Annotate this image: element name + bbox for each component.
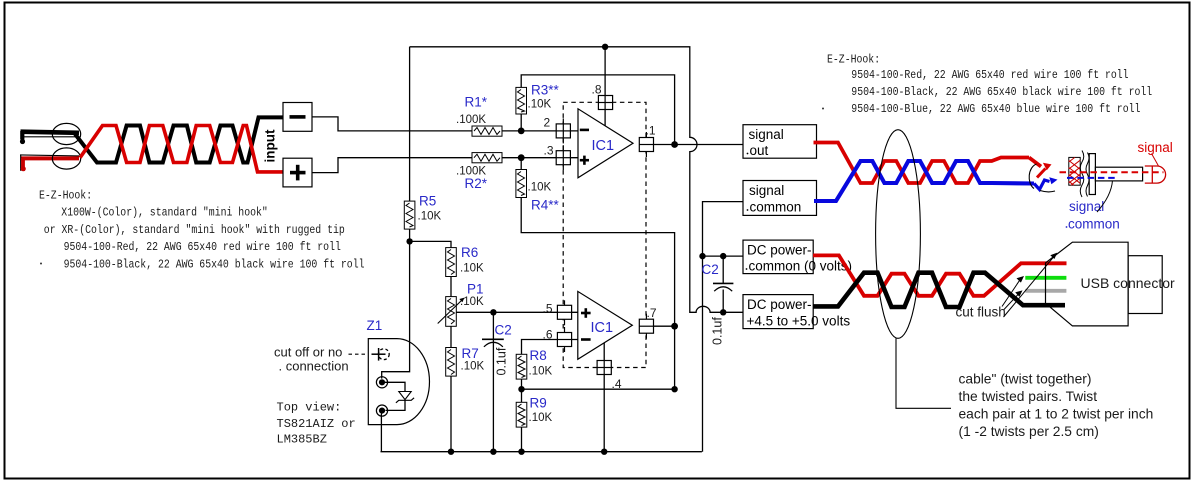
plug barrel — [1095, 167, 1142, 181]
svg-text:cut off or no: cut off or no — [274, 345, 342, 360]
wire ground bus bottom — [381, 451, 702, 453]
node bus junction R9 — [518, 449, 524, 455]
input twisted pair black wire — [75, 117, 284, 162]
wire left vertical (Vref column to Z1) — [382, 47, 410, 379]
twisted pair signal red wire — [814, 143, 1030, 184]
svg-text:R6: R6 — [461, 245, 478, 260]
svg-text:out: out — [750, 143, 769, 158]
resistor R1 100K — [472, 126, 502, 136]
resistor R3 10K — [516, 87, 527, 114]
svg-text:.5: .5 — [543, 302, 553, 316]
dashed leader cut off pin — [349, 353, 367, 355]
wire pin4 to bus — [603, 343, 605, 452]
twisted pair signal blue wire — [814, 161, 1034, 201]
resistor R9 10K — [516, 402, 527, 427]
svg-text:.10K: .10K — [461, 361, 485, 373]
USB green wire stub — [1025, 276, 1066, 280]
svg-text:9504-100-Black, 22 AWG 65x40 b: 9504-100-Black, 22 AWG 65x40 black wire … — [64, 258, 365, 272]
svg-text:9504-100-Red, 22 AWG 65x40 red: 9504-100-Red, 22 AWG 65x40 red wire 100 … — [851, 68, 1128, 82]
wire DC common branch — [703, 255, 744, 257]
signal out box — [743, 125, 817, 159]
svg-text:0.1uf: 0.1uf — [711, 317, 725, 345]
svg-text:LM385BZ: LM385BZ — [277, 433, 327, 447]
leader cut flush to USB corner — [1004, 253, 1058, 317]
node wiper C2a tap — [490, 309, 496, 315]
svg-text:R9: R9 — [530, 396, 547, 411]
plug strain squiggles — [1080, 151, 1084, 198]
svg-text:DC power-: DC power- — [747, 243, 812, 258]
resistor R8 10K — [516, 354, 527, 379]
svg-text:common: common — [1068, 217, 1120, 232]
svg-text:0.1uf: 0.1uf — [495, 347, 509, 375]
label signal common blue — [1066, 199, 1120, 232]
svg-text:.10K: .10K — [529, 366, 553, 378]
svg-text:signal: signal — [749, 127, 784, 142]
wire Z1 bottom pin to bus — [380, 414, 382, 452]
pad pin8 — [598, 96, 612, 110]
dashed box around IC1 — [563, 102, 646, 367]
plug tip red — [1145, 166, 1166, 183]
signal common box — [743, 181, 817, 216]
wire R4 to lower output feedback — [521, 158, 674, 390]
svg-text:+4.5 to +5.0 volts: +4.5 to +5.0 volts — [747, 314, 851, 329]
resistor R2 100K — [472, 153, 502, 163]
svg-text:signal: signal — [1138, 140, 1173, 155]
hook boot circle top — [52, 123, 80, 144]
svg-text:R8: R8 — [530, 348, 547, 363]
svg-text:IC1: IC1 — [592, 138, 615, 154]
hook clip top (black mini-hook) — [20, 131, 79, 144]
potentiometer P1 10K — [438, 297, 465, 327]
svg-text:E-Z-Hook:: E-Z-Hook: — [827, 53, 880, 67]
arrow cut flush to gray — [1004, 290, 1023, 309]
USB connector body — [1046, 242, 1129, 326]
node R4 top junction — [518, 154, 525, 161]
svg-text:C2: C2 — [702, 262, 719, 277]
wire pin6 to R8 — [522, 340, 579, 390]
note E-Z-Hook right — [822, 53, 1152, 117]
svg-text:DC power-: DC power- — [747, 297, 812, 312]
DC power common box — [743, 240, 852, 274]
note cut off or no connection — [274, 345, 349, 374]
svg-text:C2: C2 — [495, 323, 512, 338]
cable grouping ellipse — [876, 130, 921, 339]
node rail junction — [602, 44, 608, 50]
wire minus box to R1 (inverting input wire) — [312, 117, 578, 131]
svg-text:cable" (twist together): cable" (twist together) — [959, 372, 1092, 387]
resistor R4 10K — [516, 170, 527, 198]
svg-text:R7: R7 — [462, 346, 479, 361]
svg-text:.10K: .10K — [528, 99, 552, 111]
node bus junction pin4 — [601, 449, 607, 455]
node bus junction R7 — [448, 449, 454, 455]
svg-text:.7: .7 — [647, 306, 657, 320]
node C2b top junction — [720, 253, 726, 259]
Z1 cut-off pin — [372, 348, 390, 361]
svg-text:.10K: .10K — [418, 211, 442, 223]
svg-text:or XR-(Color), standard "mini: or XR-(Color), standard "mini hook" with… — [44, 223, 345, 237]
wire pin7 output — [654, 325, 675, 327]
node C2b bottom junction — [720, 309, 726, 315]
svg-text:R5: R5 — [419, 194, 436, 209]
pad pin2 — [556, 118, 570, 143]
svg-text:TS821AIZ or: TS821AIZ or — [277, 417, 356, 431]
svg-text:.6: .6 — [543, 328, 553, 342]
svg-text:P1: P1 — [467, 282, 484, 297]
svg-text:.10K: .10K — [460, 296, 484, 308]
svg-text:.1: .1 — [646, 124, 656, 138]
resistor R7 10K — [446, 348, 457, 377]
node pin7 junction — [671, 323, 678, 330]
node R3 bottom junction — [518, 127, 525, 134]
svg-text:.8: .8 — [592, 83, 602, 97]
wire top +5V rail with hops — [410, 47, 743, 313]
arrow cut flush to green — [1002, 276, 1024, 307]
twisted pair DC black wire — [813, 273, 1065, 307]
resistor R6 10K — [446, 248, 457, 277]
leader from ellipse to cable note — [896, 338, 951, 408]
capacitor C2 right 0.1uf — [713, 283, 733, 291]
svg-text:.100K: .100K — [456, 114, 486, 126]
svg-text:signal: signal — [1069, 199, 1104, 214]
pad pin7 — [639, 314, 653, 339]
svg-text:.10K: .10K — [528, 182, 552, 194]
node feedback corner — [671, 386, 677, 392]
input terminal box plus — [283, 158, 312, 187]
svg-text:X100W-(Color), standard "mini: X100W-(Color), standard "mini hook" — [61, 206, 267, 220]
note cable twist instructions — [959, 372, 1154, 440]
wire signal out from pin1 — [654, 144, 743, 146]
input twisted pair red wire — [80, 126, 284, 172]
svg-text:R2*: R2* — [465, 176, 488, 191]
svg-text:common: common — [750, 200, 802, 215]
node bus junction C2a — [490, 449, 496, 455]
zener diode symbol inside Z1 — [385, 382, 414, 410]
wire C2a lead to bus — [492, 312, 494, 451]
pad pin6 — [557, 327, 571, 352]
svg-text:input: input — [263, 129, 278, 162]
wire R8 R9 node to bus — [521, 389, 523, 452]
capacitor C2 left 0.1uf — [482, 339, 504, 347]
node signal common DC common junction — [699, 253, 705, 259]
svg-text:E-Z-Hook:: E-Z-Hook: — [39, 188, 92, 202]
svg-text:.4: .4 — [612, 377, 622, 391]
op-amp U1A triangle — [578, 109, 633, 178]
hook boot circle bottom — [52, 148, 80, 169]
svg-text:Z1: Z1 — [367, 318, 383, 333]
svg-text:common (0 volts): common (0 volts) — [749, 259, 853, 274]
svg-text:9504-100-Red, 22 AWG 65x40 red: 9504-100-Red, 22 AWG 65x40 red wire 100 … — [64, 240, 341, 254]
wire R3 feedback loop to output node — [521, 75, 674, 145]
svg-text:each pair at 1 to 2 twist per: each pair at 1 to 2 twist per inch — [959, 407, 1154, 422]
blue dashed common conductor — [1067, 177, 1117, 179]
svg-text:the twisted pairs. Twist: the twisted pairs. Twist — [959, 389, 1098, 404]
wire C2b top lead — [722, 256, 724, 283]
plug flange — [1089, 154, 1095, 195]
svg-text:R4**: R4** — [531, 198, 560, 213]
node R8 R9 junction — [518, 386, 524, 392]
Z1 middle pin — [376, 377, 387, 388]
svg-text:. connection: . connection — [279, 359, 349, 374]
hook clip bottom (red mini-hook) — [20, 155, 79, 171]
pad pin1 — [639, 132, 653, 157]
wire P1 wiper to pin5 — [456, 311, 578, 313]
wire R6-P1-R7 chain column — [410, 241, 451, 451]
wire pin8 drop from rail — [604, 47, 606, 126]
op-amp U1B triangle — [578, 291, 633, 359]
svg-text:signal: signal — [749, 183, 784, 198]
red dashed signal conductor — [1060, 171, 1164, 173]
svg-text:9504-100-Black, 22 AWG 65x40 b: 9504-100-Black, 22 AWG 65x40 black wire … — [851, 85, 1152, 99]
zener Z1 package outline (TO-92 top view) — [368, 339, 429, 425]
wire C2b bottom lead — [722, 290, 724, 313]
input terminal box minus — [283, 103, 312, 132]
wire signal common down to bus — [703, 202, 744, 452]
phone plug solder hatch block — [1069, 157, 1080, 185]
pad pin5 — [557, 300, 571, 325]
svg-text:R1*: R1* — [465, 95, 488, 110]
resistor R5 10K — [404, 201, 415, 229]
node R5 bottom junction — [406, 238, 412, 244]
DC power +5 box — [743, 295, 850, 329]
leader signal common — [1097, 181, 1113, 213]
red wire end into plug — [1029, 158, 1052, 178]
node pin1 output junction — [671, 141, 678, 148]
pad pin3 — [556, 145, 570, 170]
note E-Z-Hook left — [39, 188, 365, 271]
black jacket curl at plug — [1029, 164, 1055, 192]
blue wire end into plug — [1034, 177, 1058, 189]
svg-text:cut flush: cut flush — [956, 305, 1006, 320]
svg-text:.100K: .100K — [456, 166, 486, 178]
svg-text:USB connector: USB connector — [1081, 275, 1175, 291]
USB gray wire stub — [1025, 289, 1066, 293]
note Top view TS821AIZ — [277, 401, 356, 447]
twisted pair DC red wire — [813, 255, 1067, 295]
leader signal red — [1152, 154, 1159, 167]
svg-text:.3: .3 — [544, 143, 554, 157]
svg-text:.10K: .10K — [460, 263, 484, 275]
wire R8/R9 node to pin7 feedback — [522, 388, 675, 390]
USB connector rear block — [1128, 256, 1162, 314]
svg-text:IC1: IC1 — [591, 320, 614, 336]
svg-text:Top view:: Top view: — [277, 401, 342, 415]
wire plus box to R2 (non-inverting input wire) — [312, 158, 578, 173]
svg-text:2: 2 — [544, 116, 551, 130]
pad pin4 — [597, 361, 611, 375]
Z1 bottom pin — [376, 405, 387, 416]
svg-text:.10K: .10K — [529, 412, 553, 424]
svg-text:(1 -2 twists per 2.5 cm): (1 -2 twists per 2.5 cm) — [959, 424, 1099, 439]
svg-text:R3**: R3** — [531, 83, 560, 98]
svg-text:9504-100-Blue, 22 AWG 65x40 bl: 9504-100-Blue, 22 AWG 65x40 blue wire 10… — [851, 102, 1140, 116]
